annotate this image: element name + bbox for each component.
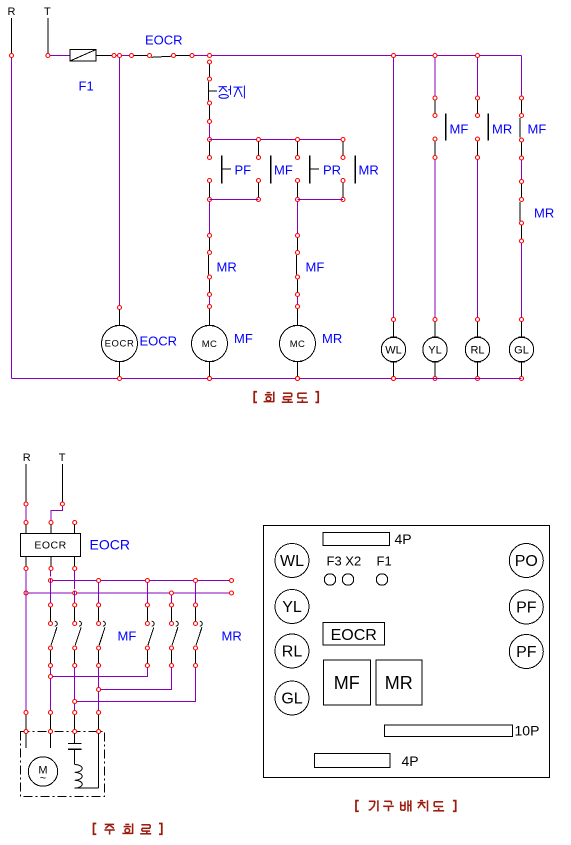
title circuit diagram (hoerodo) [254, 392, 318, 403]
contact MR b-contact blade [207, 255, 209, 275]
svg-text:T: T [44, 6, 51, 18]
wire to branch bus [209, 124, 211, 138]
wire MF pole 2 bottom lead [74, 650, 76, 663]
svg-text:MC: MC [290, 339, 306, 350]
svg-text:YL: YL [282, 599, 302, 616]
contact MF b-contact blade (GL) [519, 118, 521, 138]
svg-text:EOCR: EOCR [34, 540, 66, 552]
svg-text:MF: MF [306, 260, 325, 275]
svg-text:MF: MF [234, 331, 253, 346]
lamp WL (layout) [275, 544, 309, 578]
wire MR pole 3 top lead [195, 607, 197, 621]
wire T node to fuse [50, 55, 70, 57]
wire column R black stub [25, 715, 27, 730]
node GL column [520, 96, 524, 381]
node bus A [49, 579, 234, 583]
wire WL lamp bottom lead [393, 362, 395, 376]
wire MR contact bottom lead [477, 142, 479, 156]
node MF contact terminals [257, 156, 261, 202]
contactor MF (layout) [324, 660, 371, 705]
wire coil bottom lead [297, 362, 299, 377]
wire MF contact bottom lead [258, 183, 260, 198]
node MF contact column [296, 234, 300, 381]
svg-text:MF: MF [450, 122, 469, 137]
wire GL MF b-contact top lead [521, 100, 523, 113]
node incoming [24, 502, 77, 525]
wire down to MR interlock contact [209, 202, 211, 234]
node MR pole 2 terminals [170, 603, 174, 668]
wire to coil [209, 297, 211, 305]
node row on top bus [10, 54, 480, 58]
contactor pole MF pole 3 [99, 621, 105, 645]
lamp GL [509, 337, 533, 362]
wire EOCR coil lead [119, 310, 121, 326]
wire jumper MF2 to MR3 [77, 668, 196, 702]
wire MF contact bottom lead [297, 280, 299, 293]
svg-text:10P: 10P [515, 723, 540, 739]
wire T lead (main) [61, 464, 63, 502]
wire MF pole 2 feeder [74, 571, 76, 603]
pushbutton stop (NC) blade [208, 82, 217, 101]
node MF pole 2 terminals [73, 603, 77, 668]
svg-text:PF: PF [516, 600, 537, 617]
wire coil bottom lead [209, 362, 211, 377]
wire EOCR contact left lead [132, 55, 150, 57]
svg-text:EOCR: EOCR [105, 339, 135, 350]
wire MF pole 1 bottom lead [50, 650, 52, 663]
svg-text:EOCR: EOCR [90, 537, 130, 553]
svg-text:PF: PF [235, 163, 252, 178]
wire bottom bus [12, 378, 522, 380]
coil EOCR [102, 326, 138, 362]
node MR contact terminals [341, 156, 345, 202]
fuse holder F1 [376, 574, 387, 585]
wire column R down to motor box [25, 571, 27, 711]
node MF pole 3 jumper [97, 688, 101, 715]
fuse F1 [70, 50, 96, 62]
wire stop button top lead [209, 64, 211, 77]
wire bus B (lower distribution) [26, 592, 232, 594]
wire MF pole 3 lower segment [98, 668, 100, 711]
wire RL feeder lower [477, 160, 479, 317]
contact MF (NO) blade [445, 114, 447, 141]
node WL column [392, 318, 396, 381]
wire MF contact top lead [258, 142, 260, 156]
node column R lower [24, 711, 28, 715]
lamp YL [423, 337, 447, 362]
contact pole blade [99, 627, 105, 645]
svg-text:F1: F1 [79, 79, 94, 94]
node YL column [433, 96, 437, 381]
wire MF pole 3 feeder [98, 583, 100, 603]
wire MR contact top lead [342, 142, 344, 156]
svg-text:WL: WL [280, 553, 304, 570]
svg-text:GL: GL [281, 691, 302, 708]
svg-text:MF: MF [528, 122, 547, 137]
wire MR pole 3 bottom lead [195, 650, 197, 663]
contact pole blade [148, 627, 154, 645]
wire EOCR contact right lead [174, 55, 193, 57]
contact pole fixed hook [103, 621, 105, 626]
wire MR contact top lead [209, 238, 211, 251]
capacitor C (motor start) [68, 734, 82, 765]
motor enclosure (dash-dot box) [21, 732, 105, 797]
wire MR contact bottom lead [342, 183, 344, 198]
svg-text:RL: RL [470, 345, 484, 357]
wire MF pole 2 lower segment [74, 668, 76, 711]
lamp RL (layout) [275, 634, 309, 668]
node MF pole 1 terminals [49, 603, 53, 668]
svg-text:MF: MF [274, 163, 293, 178]
inductor winding (aux) [75, 765, 83, 789]
wire YL lamp top lead [434, 322, 436, 338]
contact PF (NO) [222, 156, 231, 184]
node RL column [476, 96, 480, 381]
wire MF pole 1 feeder [50, 571, 52, 603]
node bus B [24, 591, 234, 595]
svg-text:MC: MC [202, 339, 218, 350]
svg-text:MF: MF [334, 673, 360, 693]
panel outline (layout diagram) [264, 526, 550, 778]
wire MR pole 2 bottom lead [171, 650, 173, 663]
contact pole blade [196, 627, 202, 645]
svg-text:GL: GL [514, 345, 529, 357]
contactor pole MF pole 2 [75, 621, 81, 645]
relay EOCR block [21, 534, 81, 557]
wire RL feeder upper [477, 58, 479, 96]
svg-text:4P: 4P [402, 753, 419, 769]
wire R lead (main) [25, 464, 27, 502]
wire MF pole 1 lower segment [50, 668, 52, 711]
contact pole fixed hook [176, 621, 178, 626]
wire MF contact top lead [297, 238, 299, 251]
wire PR contact top lead [297, 142, 299, 156]
svg-text:MR: MR [322, 331, 342, 346]
svg-text:YL: YL [428, 345, 441, 357]
wire coil top lead [297, 309, 299, 326]
wire tie PF-MF [210, 199, 259, 201]
wire GL MR contact bottom lead [521, 225, 523, 239]
wire motor stub 2 [50, 734, 52, 749]
wire right feeder down to GL branch [521, 56, 523, 96]
contact pole fixed hook [200, 621, 202, 626]
svg-text:MR: MR [217, 260, 237, 275]
svg-text:PO: PO [515, 553, 538, 570]
svg-text:MR: MR [359, 163, 379, 178]
coil MC MR [280, 326, 316, 362]
wire MR pole 1 top lead [146, 607, 148, 621]
wire to coil [297, 297, 299, 305]
wire right side of winding loop [98, 734, 100, 789]
node MF pole 1 jumper [49, 675, 53, 715]
contact pole fixed hook [152, 621, 154, 626]
wire MR pole 1 bottom lead [146, 650, 148, 663]
contact MF (NO) [270, 156, 272, 184]
svg-text:F3 X2: F3 X2 [327, 554, 362, 569]
node branch bus [257, 138, 346, 142]
wire motor stub 1 [25, 734, 27, 749]
wire MF contact bottom lead [434, 142, 436, 156]
pushbutton PO (layout) [509, 544, 543, 578]
wire bus A (upper distribution) [51, 580, 232, 582]
contactor pole MR pole 3 [196, 621, 202, 645]
wire MF contact top lead [434, 100, 436, 113]
wire fuse to node [96, 55, 113, 57]
svg-text:MR: MR [385, 673, 413, 693]
wire GL feeder lower [521, 243, 523, 317]
wire tie PR-MR [298, 199, 344, 201]
lamp GL (layout) [275, 681, 309, 715]
lamp RL [465, 337, 489, 362]
node stop button column [208, 60, 212, 142]
wire top bus [210, 55, 522, 57]
svg-text:R: R [8, 6, 16, 18]
label stop (jeongji) [219, 86, 245, 99]
contact MR (NO) blade [487, 114, 489, 141]
wire GL lamp bottom lead [521, 362, 523, 376]
wire WL lamp top lead [393, 322, 395, 338]
node PF contact terminals [208, 156, 212, 202]
wire node segment purple [113, 55, 132, 57]
node MR pole 3 terminals [194, 603, 198, 668]
wire R purple segment [25, 506, 27, 520]
wire coil top lead [209, 309, 211, 326]
contactor pole MR pole 2 [172, 621, 178, 645]
wire R vertical left rail [11, 58, 13, 379]
wire MF pole 2 top lead [74, 607, 76, 621]
title main circuit (juhoero) [94, 823, 162, 834]
wire EOCR bottom stubs [26, 557, 75, 567]
node MF pole 2 jumper [73, 700, 77, 715]
svg-text:EOCR: EOCR [145, 33, 183, 48]
wire MF pole 3 black stub to motor box [98, 715, 100, 730]
lamp YL (layout) [275, 590, 309, 624]
node EOCR coil top [118, 306, 122, 310]
contact PR (NO) [310, 156, 319, 184]
wire jumper MF1 to MR1 [53, 668, 148, 677]
lamp WL [381, 337, 405, 362]
svg-text:EOCR: EOCR [140, 334, 178, 349]
wire PF contact bottom lead [209, 183, 211, 198]
node MR contact column [208, 234, 212, 381]
svg-text:~: ~ [40, 773, 46, 785]
wire MF pole 1 top lead [50, 607, 52, 621]
wire winding bottom [75, 787, 99, 789]
wire EOCR coil feeder [119, 58, 121, 306]
pushbutton PF (layout) [509, 590, 543, 624]
wire YL feeder lower [434, 160, 436, 317]
contact MR b-contact blade (GL) [519, 202, 521, 221]
node PR contact terminals [296, 156, 300, 202]
wire MF pole 2 black stub to motor box [74, 715, 76, 730]
wire R lead [11, 18, 13, 53]
wire GL lamp top lead [521, 322, 523, 338]
coil MC MF [192, 326, 228, 362]
wire T lead [47, 18, 49, 53]
svg-text:MF: MF [118, 629, 137, 644]
wire WL feeder [393, 58, 395, 318]
wire EOCR top stubs [26, 525, 75, 534]
svg-text:WL: WL [385, 345, 402, 357]
fuse holder F3 [324, 574, 335, 585]
contact pole blade [75, 627, 81, 645]
contact pole fixed hook [55, 621, 57, 626]
svg-text:PR: PR [323, 163, 341, 178]
wire MR pole 3 feeder [195, 583, 197, 603]
node EOCR bottom terminals [24, 567, 77, 571]
terminal strip 4P bottom [315, 754, 391, 768]
wire down to MF interlock contact [297, 202, 299, 234]
wire GL MR b-contact top lead [521, 184, 523, 198]
wire MR contact top lead [477, 100, 479, 113]
wire stop button bottom lead [209, 105, 211, 119]
node motor box terminals [24, 730, 101, 734]
svg-text:EOCR: EOCR [331, 627, 377, 644]
contact MR (NO) [354, 156, 356, 184]
wire T jog to EOCR [51, 506, 62, 520]
wire MR contact bottom lead [209, 280, 211, 293]
svg-text:F1: F1 [377, 554, 392, 569]
node MF pole 3 terminals [97, 603, 101, 668]
node bottom bus [118, 377, 396, 381]
title layout diagram (gigubaechido) [356, 800, 456, 811]
fuse holder X2 [342, 574, 353, 585]
relay EOCR (layout) [323, 623, 385, 646]
svg-text:MR: MR [492, 122, 512, 137]
svg-text:PF: PF [516, 644, 537, 661]
contact pole blade [172, 627, 178, 645]
wire MF pole 3 bottom lead [98, 650, 100, 663]
contactor pole MR pole 1 [148, 621, 154, 645]
wire YL feeder upper [434, 58, 436, 96]
wire MF pole 1 black stub to motor box [50, 715, 52, 730]
wire PF contact top lead [209, 142, 211, 156]
svg-text:MR: MR [222, 629, 242, 644]
contact pole blade [51, 627, 57, 645]
contact pole fixed hook [79, 621, 81, 626]
wire GL mid [521, 160, 523, 179]
node MR pole 1 terminals [145, 603, 149, 668]
wire to stop button column [192, 55, 210, 57]
svg-text:MR: MR [534, 206, 554, 221]
pushbutton PF (layout) [509, 635, 543, 669]
contactor MR (layout) [376, 660, 422, 705]
wire MR pole 1 feeder [146, 583, 148, 603]
wire RL lamp bottom lead [477, 362, 479, 376]
wire MF pole 3 top lead [98, 607, 100, 621]
wire RL lamp top lead [477, 322, 479, 338]
wire MR pole 2 feeder [171, 595, 173, 603]
svg-text:T: T [59, 452, 66, 464]
contact MF b-contact blade [295, 255, 297, 275]
svg-text:RL: RL [282, 644, 303, 661]
wire GL MF contact bottom lead [521, 142, 523, 156]
wire MR pole 2 top lead [171, 607, 173, 621]
wire branch bus [210, 139, 344, 141]
svg-text:R: R [23, 452, 31, 464]
svg-text:4P: 4P [395, 531, 412, 547]
terminal strip 10P [385, 725, 513, 737]
wire YL lamp bottom lead [434, 362, 436, 376]
motor M [28, 757, 57, 786]
wire PR contact bottom lead [297, 183, 299, 198]
terminal strip 4P top [323, 533, 390, 546]
wire jumper MF3 to MR2 [101, 668, 172, 690]
wire EOCR coil bottom lead [119, 362, 121, 377]
contactor pole MF pole 1 [51, 621, 57, 645]
contact EOCR b-contact blade [152, 56, 172, 57]
